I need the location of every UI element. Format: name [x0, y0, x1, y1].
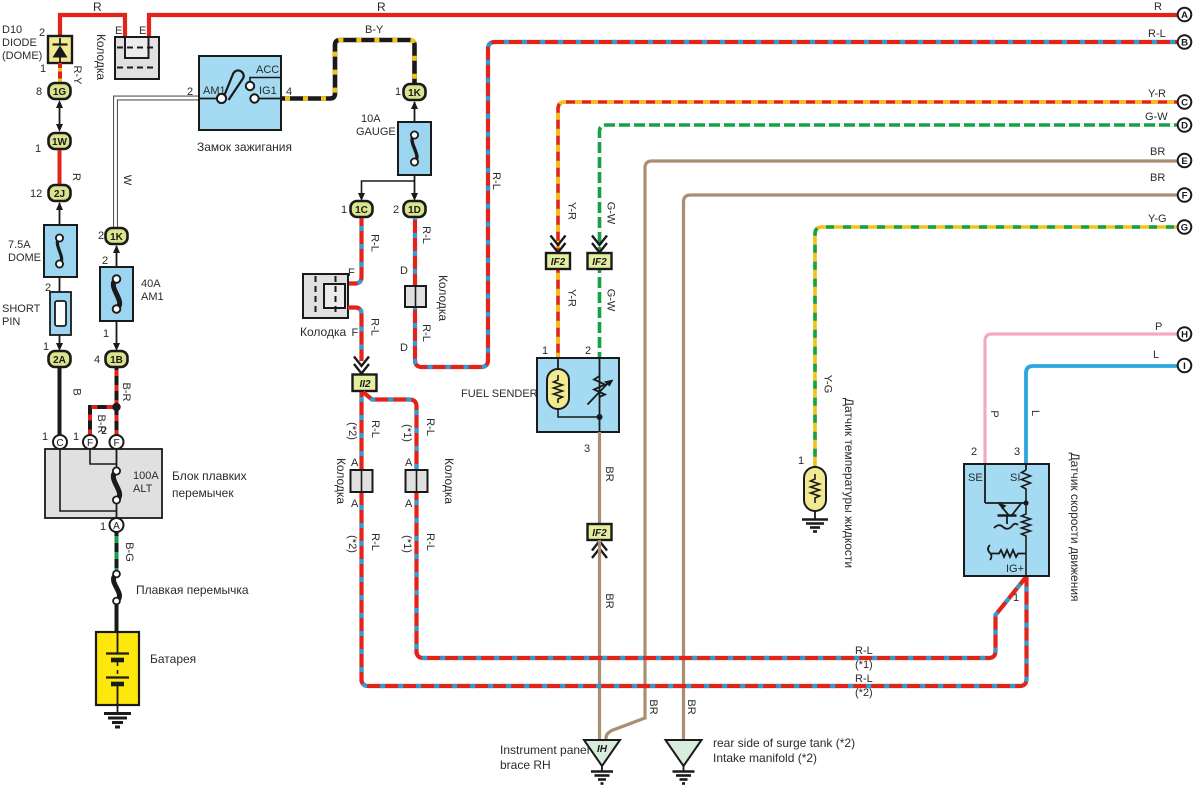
- svg-text:R-L: R-L: [369, 420, 381, 438]
- svg-text:B: B: [1181, 38, 1188, 49]
- svg-text:F: F: [1182, 191, 1188, 202]
- svg-text:DIODE: DIODE: [2, 37, 37, 49]
- svg-text:(*2): (*2): [855, 687, 873, 699]
- svg-text:Y-R: Y-R: [1148, 88, 1166, 100]
- junction IF2 (G-W): [588, 253, 612, 269]
- svg-text:R-L: R-L: [369, 234, 381, 252]
- svg-text:ALT: ALT: [133, 483, 153, 495]
- svg-text:2: 2: [187, 86, 193, 98]
- svg-text:Датчик температуры жидкости: Датчик температуры жидкости: [842, 398, 856, 568]
- node 1K (gauge side): [404, 84, 426, 100]
- svg-text:2: 2: [393, 204, 399, 216]
- label R-L (*2) bottom run: [855, 673, 873, 699]
- diode D10 (DOME): [48, 36, 72, 63]
- label D10 DIODE (DOME): [2, 24, 42, 62]
- svg-text:G-W: G-W: [1145, 111, 1168, 123]
- svg-text:A: A: [351, 457, 359, 469]
- wire P (terminal H to speed sensor SE): [985, 334, 1178, 464]
- junction IF2 (BR): [588, 524, 612, 540]
- svg-text:E: E: [1181, 156, 1187, 167]
- connector Колодка A (right): [406, 470, 428, 492]
- svg-text:P: P: [988, 410, 1000, 417]
- svg-text:R: R: [70, 173, 82, 181]
- svg-text:D10: D10: [2, 24, 22, 36]
- svg-text:GAUGE: GAUGE: [356, 126, 396, 138]
- svg-text:D: D: [400, 265, 408, 277]
- wire 2J to DOME fuse: [56, 202, 63, 225]
- svg-text:SHORT: SHORT: [2, 303, 41, 315]
- svg-text:BR: BR: [685, 699, 697, 714]
- svg-text:Колодка: Колодка: [300, 325, 346, 339]
- wire DOME fuse to SHORT PIN: [59, 277, 61, 292]
- node 1K (fuse side): [106, 228, 128, 244]
- svg-text:2: 2: [98, 230, 104, 242]
- svg-text:R-Y: R-Y: [71, 66, 83, 86]
- wire W (switch AM1 to 1K): [116, 98, 200, 227]
- svg-text:8: 8: [36, 86, 42, 98]
- node 1C: [351, 201, 373, 217]
- junction IF2 chevrons (BR, pointing up): [592, 541, 607, 558]
- wire 1K to AM1 fuse: [113, 245, 120, 267]
- svg-text:F: F: [113, 438, 119, 449]
- svg-text:E: E: [139, 25, 146, 37]
- svg-text:IF2: IF2: [551, 257, 566, 268]
- svg-text:2: 2: [585, 345, 591, 357]
- svg-text:1: 1: [40, 63, 46, 75]
- svg-text:FUEL SENDER: FUEL SENDER: [461, 388, 538, 400]
- svg-text:4: 4: [94, 354, 100, 366]
- svg-text:P: P: [1155, 321, 1162, 333]
- node 1D: [404, 201, 426, 217]
- svg-text:R-L: R-L: [369, 533, 381, 551]
- node 1W: [49, 133, 71, 149]
- wire R-L (*2) (II2 down and right to speed sensor): [359, 392, 363, 682]
- svg-text:(*2): (*2): [346, 422, 358, 440]
- junction IF2 (Y-R): [546, 253, 570, 269]
- svg-text:brace RH: brace RH: [500, 758, 551, 772]
- svg-text:G: G: [1181, 223, 1188, 234]
- wire R top main segment (connector E to terminal A): [149, 15, 1178, 37]
- terminal G: [1178, 220, 1192, 234]
- label SHORT PIN: [2, 303, 41, 328]
- svg-text:Блок плавких: Блок плавких: [172, 469, 247, 483]
- svg-text:R-L: R-L: [420, 226, 432, 244]
- svg-text:SI: SI: [1010, 472, 1020, 484]
- label R-L (*1) bottom run: [855, 645, 873, 671]
- svg-text:R-L: R-L: [420, 324, 432, 342]
- wire AM1 fuse to 1B: [113, 321, 120, 351]
- svg-text:R-L: R-L: [855, 673, 873, 685]
- svg-text:IH: IH: [597, 744, 608, 755]
- svg-text:Intake manifold (*2): Intake manifold (*2): [713, 751, 817, 765]
- svg-text:1: 1: [1013, 592, 1019, 604]
- svg-text:G-W: G-W: [605, 289, 617, 312]
- terminal E: [1178, 154, 1192, 168]
- fuse 40A AM1: [100, 267, 133, 321]
- junction dot on B-R: [112, 403, 120, 411]
- connector Колодка D: [405, 286, 426, 307]
- svg-text:DOME: DOME: [8, 252, 41, 264]
- svg-text:1: 1: [103, 328, 109, 340]
- wire 1K to GAUGE fuse: [411, 101, 418, 122]
- fuse 7.5A DOME: [44, 225, 77, 277]
- svg-text:R-L: R-L: [424, 418, 436, 436]
- node 1B: [106, 351, 128, 367]
- svg-text:IF2: IF2: [592, 528, 607, 539]
- svg-text:B-Y: B-Y: [365, 24, 384, 36]
- svg-text:R-L: R-L: [1148, 28, 1166, 40]
- svg-text:H: H: [1181, 330, 1188, 341]
- wire B (2A to C): [58, 367, 62, 435]
- svg-text:Y-G: Y-G: [1148, 213, 1167, 225]
- terminal I: [1178, 359, 1192, 373]
- label rear side of surge tank / intake manifold: [713, 736, 855, 765]
- svg-text:2: 2: [39, 27, 45, 39]
- fuse 10A GAUGE: [398, 122, 431, 175]
- label 7.5A DOME: [8, 239, 41, 264]
- svg-text:II2: II2: [359, 379, 371, 390]
- wire R-L (terminal B to D connector to 1D): [415, 42, 1178, 367]
- svg-text:A: A: [1181, 10, 1188, 21]
- block Блок плавких перемычек: [45, 449, 162, 518]
- svg-text:A: A: [351, 498, 359, 510]
- svg-text:BR: BR: [603, 466, 615, 481]
- svg-text:Y-G: Y-G: [822, 375, 834, 394]
- svg-text:R: R: [93, 0, 102, 14]
- wire Y-G (terminal G to temperature sensor): [815, 227, 1178, 467]
- svg-text:(*1): (*1): [401, 535, 413, 553]
- wire R-L (*1) bottom horizontal run: [417, 577, 1027, 658]
- svg-text:D: D: [1181, 121, 1188, 132]
- svg-text:3: 3: [584, 443, 590, 455]
- svg-text:2: 2: [101, 425, 107, 437]
- svg-text:B-G: B-G: [123, 542, 135, 562]
- wire R-L (connector F to II2): [348, 308, 362, 362]
- ignition switch Замок зажигания: [199, 56, 281, 130]
- svg-text:1: 1: [73, 431, 79, 443]
- svg-text:1: 1: [35, 143, 41, 155]
- svg-text:(*1): (*1): [855, 659, 873, 671]
- wire R top-left segment (diode to connector E): [60, 15, 125, 38]
- svg-text:A: A: [113, 521, 120, 532]
- svg-text:1: 1: [43, 341, 49, 353]
- svg-text:AM1: AM1: [141, 291, 164, 303]
- svg-text:12: 12: [30, 188, 42, 200]
- svg-text:Instrument panel: Instrument panel: [500, 743, 589, 757]
- svg-text:L: L: [1029, 410, 1041, 416]
- terminal F: [1178, 188, 1192, 202]
- ground (battery): [104, 705, 131, 727]
- sensor Датчик скорости движения: [964, 464, 1049, 576]
- label Блок плавких перемычек: [172, 469, 247, 500]
- svg-text:7.5A: 7.5A: [8, 239, 31, 251]
- node 2J: [49, 185, 71, 201]
- svg-text:перемычек: перемычек: [172, 486, 234, 500]
- terminal D: [1178, 118, 1192, 132]
- svg-text:IF2: IF2: [592, 257, 607, 268]
- svg-text:R-L: R-L: [369, 318, 381, 336]
- svg-text:2J: 2J: [54, 189, 65, 200]
- svg-text:Датчик скорости движения: Датчик скорости движения: [1068, 452, 1082, 601]
- svg-text:40A: 40A: [141, 278, 161, 290]
- wire SHORT PIN to 2A: [56, 335, 63, 351]
- svg-text:1B: 1B: [110, 355, 123, 366]
- svg-text:Колодка: Колодка: [334, 458, 348, 504]
- svg-text:R: R: [377, 0, 386, 14]
- wire R-Y (diode to 1G): [58, 63, 62, 83]
- svg-text:Колодка: Колодка: [442, 458, 456, 504]
- svg-text:3: 3: [1014, 446, 1020, 458]
- svg-text:IG1: IG1: [259, 85, 277, 97]
- svg-text:C: C: [1181, 98, 1188, 109]
- svg-text:BR: BR: [647, 699, 659, 714]
- svg-text:1D: 1D: [408, 205, 421, 216]
- wire R (1W to 2J): [58, 150, 62, 184]
- wire GAUGE fuse to 1D: [411, 175, 418, 201]
- svg-text:1: 1: [542, 345, 548, 357]
- svg-text:1: 1: [100, 521, 106, 533]
- svg-text:Колодка: Колодка: [436, 275, 450, 321]
- svg-text:F: F: [87, 438, 93, 449]
- junction II2: [353, 375, 377, 392]
- fuse 100A ALT: [113, 467, 159, 503]
- wire BR (IF2 to ground IH): [598, 540, 601, 741]
- wire B-R branch (junction to F left): [90, 407, 117, 435]
- svg-text:1: 1: [798, 455, 804, 467]
- terminal A: [1178, 8, 1192, 22]
- sensor Датчик температуры жидкости: [804, 467, 826, 511]
- svg-text:IG+: IG+: [1006, 563, 1024, 575]
- svg-text:ACC: ACC: [256, 64, 279, 76]
- wire BR (terminal F to ground): [684, 195, 1179, 740]
- svg-text:R-L: R-L: [424, 533, 436, 551]
- connector SHORT PIN: [50, 292, 71, 335]
- fusible link Плавкая перемычка: [113, 571, 120, 605]
- svg-text:Колодка: Колодка: [94, 34, 108, 80]
- ground (temperature sensor): [802, 511, 828, 532]
- svg-text:rear side of surge tank (*2): rear side of surge tank (*2): [713, 736, 855, 750]
- svg-text:1G: 1G: [53, 87, 67, 98]
- wire fusible link to battery: [115, 604, 119, 632]
- wire L (terminal I to speed sensor SI): [1026, 366, 1178, 464]
- svg-text:1: 1: [341, 204, 347, 216]
- svg-text:2: 2: [102, 255, 108, 267]
- wire BR (terminal E to ground IH): [606, 161, 1178, 741]
- junction IF2 chevrons (G-W): [592, 236, 607, 253]
- label 10A GAUGE: [356, 113, 396, 138]
- terminal C: [1178, 95, 1192, 109]
- terminal H: [1178, 327, 1192, 341]
- svg-text:F: F: [348, 267, 355, 279]
- svg-text:100A: 100A: [133, 470, 159, 482]
- svg-text:(*2): (*2): [346, 535, 358, 553]
- svg-text:Замок зажигания: Замок зажигания: [197, 140, 292, 154]
- wire 1G to 1W (double arrow): [56, 100, 63, 132]
- wire R-L (1C to connector F): [348, 218, 362, 284]
- svg-text:R-L: R-L: [490, 172, 502, 190]
- wire R-L (*1) (II2 right branch to speed sensor): [363, 392, 417, 654]
- svg-text:Y-R: Y-R: [566, 202, 578, 220]
- label 40A AM1: [141, 278, 164, 303]
- wire R-L (*2) bottom horizontal run: [362, 576, 1027, 686]
- svg-text:1W: 1W: [52, 137, 68, 148]
- svg-text:Y-R: Y-R: [566, 289, 578, 307]
- svg-text:BR: BR: [1150, 172, 1165, 184]
- svg-text:D: D: [400, 342, 408, 354]
- svg-text:W: W: [121, 175, 133, 186]
- svg-text:BR: BR: [603, 593, 615, 608]
- svg-text:2: 2: [971, 446, 977, 458]
- node 1G: [49, 83, 71, 99]
- wire GAUGE fuse branch to 1C: [358, 181, 415, 201]
- wire B-G (A to fusible link): [115, 532, 119, 571]
- wire G-W (terminal D to fuel sender pin 2): [600, 125, 1179, 358]
- svg-text:Плавкая перемычка: Плавкая перемычка: [136, 583, 249, 597]
- svg-text:I: I: [1183, 361, 1186, 372]
- svg-text:1C: 1C: [355, 205, 368, 216]
- terminal F (right): [110, 435, 124, 449]
- svg-text:(*1): (*1): [401, 424, 413, 442]
- svg-text:Батарея: Батарея: [150, 652, 196, 666]
- wire B-R (1B to F right): [115, 367, 119, 435]
- svg-text:E: E: [115, 25, 122, 37]
- battery Батарея: [96, 632, 139, 705]
- svg-text:2A: 2A: [53, 355, 66, 366]
- ground (surge tank / intake manifold): [666, 740, 702, 784]
- svg-text:1: 1: [42, 431, 48, 443]
- ground IH (instrument panel brace RH): [584, 740, 620, 784]
- connector Колодка F: [303, 274, 348, 318]
- terminal F (left): [83, 435, 97, 449]
- svg-text:G-W: G-W: [605, 202, 617, 225]
- connector Колодка (top, pins E E): [115, 37, 159, 79]
- wire B-Y (IG1 to 1K): [281, 40, 415, 99]
- svg-text:L: L: [1153, 349, 1159, 361]
- junction II2 chevrons: [354, 357, 369, 374]
- svg-text:B-R: B-R: [120, 383, 132, 402]
- svg-text:PIN: PIN: [2, 316, 20, 328]
- svg-text:R-L: R-L: [855, 645, 873, 657]
- svg-text:A: A: [405, 498, 413, 510]
- node 2A: [49, 351, 71, 367]
- terminal B: [1178, 35, 1192, 49]
- label Instrument panel brace RH: [500, 743, 589, 772]
- terminal A: [110, 518, 124, 532]
- svg-text:R: R: [1154, 1, 1162, 13]
- svg-text:1K: 1K: [408, 88, 422, 99]
- svg-text:BR: BR: [1150, 146, 1165, 158]
- svg-text:C: C: [56, 438, 63, 449]
- connector Колодка A (left): [351, 470, 373, 492]
- terminal C: [53, 435, 67, 449]
- svg-text:SE: SE: [968, 472, 983, 484]
- svg-text:A: A: [405, 457, 413, 469]
- svg-text:10A: 10A: [361, 113, 381, 125]
- component FUEL SENDER: [537, 358, 619, 432]
- svg-text:(DOME): (DOME): [2, 50, 42, 62]
- svg-text:B: B: [71, 388, 83, 395]
- junction IF2 chevrons (Y-R): [551, 236, 566, 253]
- svg-text:F: F: [352, 327, 359, 339]
- svg-text:1K: 1K: [110, 232, 124, 243]
- wire BR (fuel sender pin 3 to IF2): [598, 432, 601, 524]
- svg-text:1: 1: [395, 86, 401, 98]
- wire Y-R (terminal C to fuel sender pin 1): [558, 102, 1178, 358]
